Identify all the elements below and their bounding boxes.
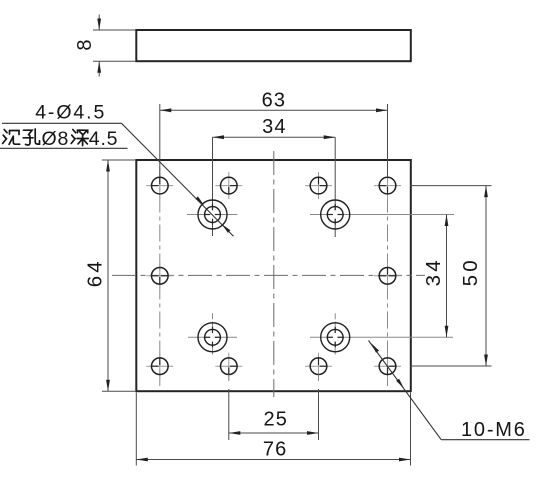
dim line 63	[160, 109, 388, 111]
extension line top for dim 8	[93, 29, 136, 31]
svg-text:4-Ø4.5: 4-Ø4.5	[35, 102, 106, 124]
dashed hole column right	[387, 167, 389, 387]
vertical centerline	[273, 151, 275, 397]
hanzi chen (sink)	[3, 130, 20, 145]
leader 2 diagonal	[369, 341, 442, 440]
svg-text:25: 25	[263, 409, 288, 431]
extension line bottom for dim 8	[93, 60, 136, 62]
svg-text:34: 34	[422, 257, 445, 286]
dim line 34 top	[213, 136, 336, 138]
svg-text:10-M6: 10-M6	[461, 419, 527, 441]
svg-text:4.5: 4.5	[89, 128, 119, 150]
bottom-right cbore vertical	[334, 322, 336, 334]
counterbored hole CB2 ( 4.5 drill, C-bore 8)	[310, 200, 454, 229]
dim line 25	[229, 432, 319, 434]
leader 1 shelf upper	[2, 122, 122, 124]
svg-text:63: 63	[262, 90, 287, 112]
ext line 34 right handled by cbore crosshairs; dim line	[446, 215, 448, 338]
counterbored hole CB3 ( 4.5 drill, C-bore 8)	[188, 323, 237, 352]
M6 tapped hole A3	[305, 172, 332, 199]
horizontal centerline	[112, 274, 425, 276]
dash above bottom-left cbore	[212, 313, 214, 319]
bottom-left cbore vertical	[212, 322, 214, 334]
hanzi kong (hole)	[23, 129, 39, 145]
M6 tapped hole C2	[215, 353, 242, 380]
dim line 64	[107, 160, 109, 391]
svg-text:76: 76	[263, 439, 288, 461]
ext line 34top left / cbore column	[212, 137, 214, 210]
M6 tapped hole C1	[146, 353, 173, 380]
M6 tapped hole C3	[305, 353, 332, 380]
counterbored hole CB4 ( 4.5 drill, C-bore 8)	[310, 323, 453, 352]
svg-text:8: 8	[74, 39, 96, 50]
small vertical crosshair exts below bottom holes	[228, 375, 230, 382]
leader 1 shelf lower	[0, 147, 128, 149]
svg-text:50: 50	[459, 257, 482, 286]
leader 2 shelf	[441, 439, 529, 441]
leader 1 diagonal	[122, 123, 234, 236]
M6 tapped hole A2	[215, 172, 242, 199]
ext lines dim 64	[102, 159, 136, 161]
side view plate outline	[136, 30, 411, 61]
ext lines dim 50	[410, 185, 492, 187]
dimension 8 lines and arrows	[98, 15, 100, 31]
M6 tapped hole B2	[374, 262, 401, 289]
leader 1 arrowheads	[195, 196, 204, 205]
M6 tapped hole C4	[374, 353, 401, 380]
dashed hole column left	[159, 167, 161, 387]
hanzi shen (depth)	[71, 130, 88, 146]
ext lines dim 63	[159, 104, 161, 177]
dim line 50	[485, 186, 487, 366]
counterbored hole CB1 ( 4.5 drill, C-bore 8)	[187, 200, 238, 229]
svg-text:34: 34	[262, 116, 287, 138]
leader 2 arrowheads	[371, 343, 379, 353]
svg-text:Ø8: Ø8	[42, 128, 70, 150]
M6 tapped hole B1	[146, 262, 173, 289]
dash above bottom-right cbore	[334, 313, 336, 319]
dim line 76	[136, 459, 410, 461]
main plate outline	[136, 160, 411, 391]
ext lines dim 25	[228, 389, 230, 440]
M6 tapped hole A4	[374, 172, 401, 199]
M6 tapped hole A1	[146, 172, 173, 199]
ext lines dim 76	[135, 393, 137, 466]
svg-text:64: 64	[83, 258, 106, 287]
ext line 34top right / cbore column	[334, 137, 336, 210]
